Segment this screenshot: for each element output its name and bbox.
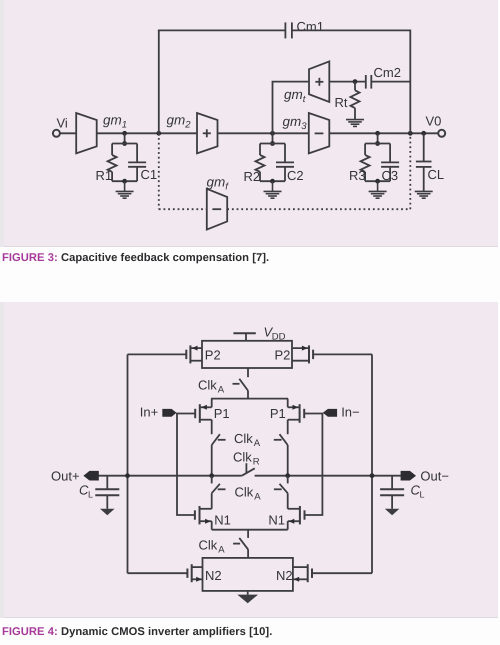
wire Cm2 to output vertical: [371, 81, 410, 83]
wire gm3 to output V0: [329, 132, 438, 134]
svg-text:CL: CL: [428, 167, 445, 182]
svg-text:Cm1: Cm1: [297, 19, 324, 34]
capacitor CL to ground: [416, 133, 444, 191]
svg-text:P1: P1: [214, 406, 230, 421]
ground below R3C3: [369, 181, 387, 198]
wire top rail right of Cm1: [292, 29, 410, 31]
capacitor Cm2: [366, 65, 401, 89]
transistor P2 right: [275, 345, 373, 363]
resistor Rt to ground: [335, 82, 360, 120]
svg-text:Vi: Vi: [57, 115, 68, 130]
wire node C up to gmt: [273, 82, 310, 134]
svg-text:Clk: Clk: [198, 378, 217, 393]
ground below R2C2: [264, 181, 282, 198]
svg-text:N1: N1: [268, 512, 285, 527]
svg-text:R2: R2: [244, 169, 261, 184]
transistor P1 left: [176, 399, 230, 435]
svg-text:N1: N1: [214, 512, 231, 527]
op-amp gmf (feedback): [207, 175, 230, 230]
svg-text:gm3: gm3: [283, 114, 308, 132]
svg-text:R: R: [253, 456, 260, 467]
wire gm2 to gm3: [218, 132, 309, 134]
resistor R3 and capacitor C3 parallel to ground: [349, 133, 399, 183]
switch ClkA top: [198, 368, 248, 399]
node Cm junction dot: [408, 131, 413, 136]
N2 drain-source box: [203, 558, 293, 591]
input tag In+: [140, 405, 177, 420]
svg-text:C3: C3: [382, 168, 399, 183]
wire Cm1 rail down to output: [409, 30, 411, 134]
svg-text:Cm2: Cm2: [374, 65, 401, 80]
svg-text:Clk: Clk: [235, 484, 254, 499]
wire P1 source rail: [211, 398, 288, 400]
output rail right (Out-): [255, 475, 403, 477]
capacitor CL left: [79, 476, 119, 509]
VDD supply: [233, 325, 285, 343]
input terminal Vi: [53, 115, 68, 137]
svg-text:R1: R1: [96, 168, 113, 183]
label ClkR: [233, 449, 260, 467]
ground below Rt: [346, 120, 364, 127]
svg-text:L: L: [420, 490, 425, 500]
label ClkA lower: [235, 484, 262, 502]
wire Vi to gm1: [60, 132, 76, 134]
transistor P1 right: [270, 399, 324, 435]
switch ClkR on output rail: [242, 463, 255, 476]
node R3 branch dot: [375, 131, 380, 136]
transistor N2 left: [128, 564, 222, 583]
ground below CL: [415, 191, 433, 198]
svg-text:gm1: gm1: [103, 113, 127, 131]
node CL branch dot: [421, 131, 426, 136]
svg-text:A: A: [218, 385, 225, 396]
input tag In-: [323, 405, 360, 420]
svg-text:In−: In−: [341, 405, 359, 420]
svg-text:Clk: Clk: [234, 431, 253, 446]
wire In- down to N1 gate: [305, 414, 323, 516]
resistor R2 and capacitor C2 parallel to ground: [244, 133, 304, 184]
ground below CL left: [100, 509, 115, 516]
svg-text:Clk: Clk: [199, 537, 218, 552]
switch ClkA lower-right: [274, 476, 288, 509]
op-amp gm2: [167, 113, 218, 154]
op-amp gm3: [283, 113, 330, 153]
dashed feedback wire down from node B: [158, 133, 160, 209]
output tag Out+: [51, 468, 99, 483]
svg-text:N2: N2: [205, 568, 222, 583]
switch ClkA lower-left: [212, 476, 226, 509]
dashed feedback wire to gmf: [159, 208, 207, 210]
svg-text:P2: P2: [275, 347, 291, 362]
svg-text:P2: P2: [205, 347, 221, 362]
wire N1 source rail: [212, 529, 288, 531]
svg-text:A: A: [254, 491, 261, 502]
output rail left (Out+): [96, 475, 242, 477]
svg-text:In+: In+: [140, 405, 158, 420]
capacitor CL right: [380, 476, 424, 509]
rail junction dots: [125, 473, 374, 478]
wire outer right (P2 gate to N2 gate via Out-): [371, 354, 373, 573]
transistor P2 left: [128, 345, 221, 363]
wire In+ down to N1 gate: [177, 414, 195, 516]
svg-text:Rt: Rt: [335, 95, 348, 110]
svg-text:N2: N2: [276, 568, 293, 583]
svg-text:C2: C2: [287, 168, 304, 183]
output terminal V0: [426, 114, 446, 137]
svg-text:gmt: gmt: [284, 87, 306, 105]
switch ClkA mid-right: [274, 434, 288, 476]
ground below CL right: [385, 509, 400, 516]
node A dot: [122, 131, 127, 136]
svg-text:gm2: gm2: [167, 113, 192, 131]
transistor N1 right: [268, 506, 304, 530]
svg-text:P1: P1: [270, 406, 286, 421]
dashed feedback wire up to output node: [409, 133, 411, 209]
node B dot: [156, 131, 161, 136]
node Rt dot: [353, 79, 358, 84]
svg-text:V0: V0: [426, 114, 442, 129]
svg-text:C1: C1: [141, 167, 158, 182]
wire gmt to Cm2: [329, 81, 366, 83]
svg-text:Out+: Out+: [51, 468, 80, 483]
switch ClkA bottom: [199, 530, 249, 558]
svg-text:R3: R3: [349, 168, 366, 183]
transistor N1 left: [195, 506, 231, 530]
output tag Out-: [401, 468, 449, 483]
P2 drain-source box: [202, 341, 292, 368]
wire gm1 to gm2: [97, 132, 197, 134]
svg-text:Clk: Clk: [233, 449, 252, 464]
ground below R1C1: [116, 181, 134, 198]
node C dot: [270, 131, 275, 136]
ground below N2 box: [237, 591, 258, 603]
label ClkA mid: [234, 431, 261, 449]
svg-text:A: A: [218, 544, 225, 555]
svg-text:L: L: [88, 490, 93, 500]
svg-text:A: A: [254, 438, 261, 449]
transistor N2 right: [276, 564, 372, 583]
op-amp gm1: [76, 113, 127, 154]
wire node B up to Cm1: [158, 30, 160, 133]
resistor R1 and capacitor C1 parallel to ground: [96, 133, 158, 183]
switch ClkA mid-left: [212, 434, 226, 476]
dashed feedback wire gmf to output: [227, 208, 410, 210]
wire top rail left of Cm1: [158, 29, 286, 31]
svg-text:Out−: Out−: [420, 468, 449, 483]
op-amp gmt (points left): [284, 61, 329, 105]
wire outer left (P2 gate to N2 gate via Out+): [127, 354, 129, 573]
capacitor Cm1: [285, 19, 324, 38]
